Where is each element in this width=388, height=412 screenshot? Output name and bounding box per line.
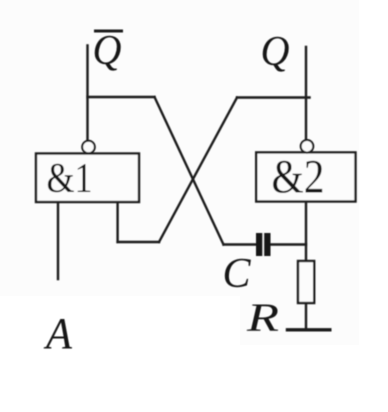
resistor R body [298,261,314,303]
svg-text:&1: &1 [47,156,93,202]
svg-text:&2: &2 [272,151,325,204]
wire diagonal Q to gate 1 input [159,98,237,243]
capacitor C plates [256,233,271,256]
ground [286,328,332,331]
scan background tint [0,0,359,296]
overline of Q-bar [94,30,123,33]
wire Q-bar branch horizontal [88,96,155,98]
wire Q-bar output vertical [86,46,88,142]
svg-text:C: C [223,251,252,297]
wire gate 2 input pin vertical [305,202,307,262]
gate U1 body [36,154,139,203]
svg-text:Q: Q [261,29,290,75]
inversion bubble U2 [301,140,314,153]
svg-text:R: R [246,295,279,340]
wire resistor to ground [305,303,307,329]
gate U2 body [256,152,355,201]
wire Q branch horizontal [237,96,310,98]
wire Q output vertical [305,47,307,140]
inversion bubble U1 [82,141,95,154]
wire input A pin [57,202,59,279]
wire horizontal to gate 1 input [118,241,159,243]
svg-text:A: A [43,309,73,358]
wire diagonal Q-bar to capacitor [155,97,224,245]
wire to capacitor left plate [224,243,257,245]
wire gate 1 input riser [116,202,118,243]
wire capacitor right plate to node [271,243,307,245]
svg-text:Q: Q [93,28,122,74]
